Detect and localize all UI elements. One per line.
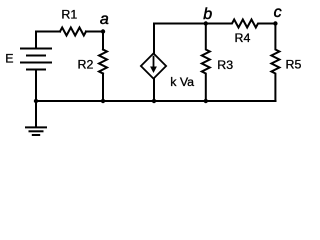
node c	[273, 21, 277, 25]
svg-text:a: a	[100, 11, 109, 28]
bottom rail	[36, 100, 276, 102]
node b	[204, 21, 208, 25]
resistor R1	[60, 28, 86, 36]
node a	[101, 29, 105, 33]
svg-text:R3: R3	[217, 58, 233, 72]
wire source bottom to rail	[153, 79, 155, 101]
svg-text:R4: R4	[235, 31, 251, 45]
svg-text:b: b	[203, 6, 212, 23]
arrow inside source	[150, 56, 157, 73]
wire R2 bottom to rail	[102, 74, 104, 102]
svg-text:E: E	[5, 51, 13, 65]
resistor R2	[99, 50, 107, 74]
junction R3-rail	[204, 99, 208, 103]
battery E plates	[21, 48, 51, 50]
wire source top to node b	[154, 24, 206, 54]
svg-text:R1: R1	[61, 7, 77, 21]
resistor R4	[206, 20, 276, 28]
junction R2-rail	[101, 99, 105, 103]
wire battery top to R1	[36, 32, 60, 49]
wire R1 to node a	[86, 31, 103, 33]
svg-text:R2: R2	[78, 58, 94, 72]
dependent source U1 diamond	[141, 53, 166, 78]
ground	[35, 101, 37, 127]
svg-text:c: c	[274, 4, 282, 21]
resistor R3	[202, 24, 210, 102]
wire battery bottom to rail	[35, 70, 37, 102]
svg-text:k Va: k Va	[170, 75, 194, 89]
junction source-rail	[152, 99, 156, 103]
svg-text:R5: R5	[286, 58, 302, 72]
junction battery-rail	[34, 99, 38, 103]
wire node a down to R2	[102, 32, 104, 50]
resistor R5	[271, 24, 279, 102]
